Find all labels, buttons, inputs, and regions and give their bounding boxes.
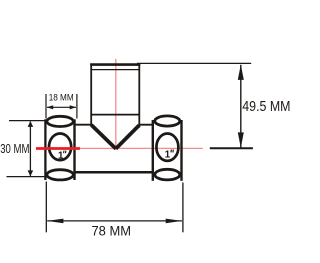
18mm left extension line (45, 94, 47, 119)
dimension 18 MM (46, 94, 77, 119)
left port right wall (73, 119, 75, 180)
left port left wall (44, 119, 46, 180)
49.5mm top extension line (137, 62, 251, 64)
svg-text:78 MM: 78 MM (92, 223, 132, 238)
pipe collar band (91, 69, 140, 71)
right port top ellipse (155, 116, 180, 126)
funnel left diagonal (91, 125, 115, 149)
78mm right extension line (182, 183, 184, 233)
right port (153, 116, 182, 181)
svg-text:1: 1 (165, 150, 171, 161)
centerline horizontal thin (red) (36, 147, 203, 149)
centerline vertical (red) (115, 59, 117, 150)
dimension 30 MM (7, 121, 49, 177)
right port thread circle (156, 134, 178, 161)
78mm dimension line (47, 220, 182, 222)
svg-text:30 MM: 30 MM (0, 141, 29, 156)
body top line left (75, 124, 93, 126)
svg-text:18 MM: 18 MM (49, 93, 74, 103)
dimension 78 MM (46, 182, 183, 233)
left port (45, 116, 74, 180)
30mm top extension line (9, 120, 48, 122)
svg-text:1: 1 (58, 150, 64, 161)
30mm dimension line (29, 122, 31, 176)
18mm right arrowhead (70, 105, 77, 109)
body top line right (139, 124, 153, 126)
funnel right diagonal (116, 125, 139, 149)
right port right wall (180, 120, 182, 181)
49.5mm bottom reference line (210, 147, 253, 149)
18mm right extension line (76, 94, 78, 119)
right port left wall (152, 120, 154, 181)
pipe left wall (90, 64, 92, 127)
49.5mm bottom arrowhead (238, 132, 244, 148)
dimension 49.5 MM (137, 63, 253, 148)
left port top ellipse (47, 116, 73, 126)
pipe bottom edge (90, 114, 139, 116)
78mm right arrowhead (166, 219, 182, 224)
30mm bottom extension line (7, 176, 48, 178)
30mm top arrowhead (28, 121, 34, 127)
thick red centerline segment over left port (36, 147, 80, 150)
49.5mm top arrowhead (238, 64, 244, 80)
body bottom line (75, 171, 153, 174)
18mm dimension line (47, 106, 76, 108)
body (75, 125, 153, 173)
18mm left arrowhead (47, 105, 54, 109)
pipe top branch (90, 64, 140, 149)
pipe top edge (90, 63, 140, 66)
78mm left arrowhead (47, 219, 63, 224)
30mm bottom arrowhead (28, 170, 34, 176)
svg-text:49.5 MM: 49.5 MM (242, 99, 290, 115)
right port bottom ellipse (155, 169, 180, 180)
78mm left extension line (45, 182, 47, 233)
left port bottom ellipse (47, 170, 73, 180)
left port thread circle (49, 134, 71, 161)
49.5mm dimension line (240, 65, 242, 148)
pipe right wall (138, 64, 140, 128)
